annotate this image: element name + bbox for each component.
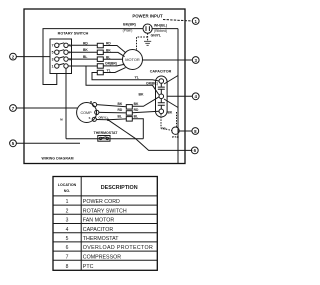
svg-text:WH(BL): WH(BL) bbox=[154, 24, 168, 28]
svg-text:3: 3 bbox=[194, 58, 197, 63]
svg-text:RD.: RD. bbox=[162, 127, 167, 131]
svg-text:RD: RD bbox=[106, 42, 111, 46]
svg-text:1: 1 bbox=[66, 199, 69, 205]
svg-text:6: 6 bbox=[66, 245, 69, 251]
wire RD switch L to motor bbox=[68, 45, 126, 53]
thermostat TH1 bbox=[98, 136, 110, 142]
svg-text:OR(BR): OR(BR) bbox=[105, 61, 117, 65]
svg-text:COMP: COMP bbox=[80, 111, 92, 115]
rotary switch position labels L H M bbox=[69, 44, 72, 62]
svg-text:5: 5 bbox=[66, 236, 69, 242]
fan motor M1 bbox=[123, 50, 143, 70]
svg-text:BK: BK bbox=[106, 48, 111, 52]
svg-text:BK: BK bbox=[118, 102, 123, 106]
svg-text:7: 7 bbox=[12, 106, 15, 111]
parts list table bbox=[53, 177, 157, 271]
connector CN2 bbox=[126, 105, 132, 122]
callout 1 power cord bbox=[192, 18, 199, 25]
svg-text:RD: RD bbox=[134, 108, 139, 112]
rotary switch contact levers bbox=[59, 43, 65, 65]
svg-text:BK: BK bbox=[83, 48, 88, 52]
svg-text:BK(BR): BK(BR) bbox=[123, 23, 137, 27]
svg-text:6: 6 bbox=[194, 148, 197, 153]
wire from junction to thermostat line bbox=[108, 120, 136, 139]
callout 7 compressor bbox=[10, 105, 78, 112]
svg-text:2: 2 bbox=[66, 208, 69, 214]
rotary switch box bbox=[50, 39, 72, 74]
svg-text:YL: YL bbox=[107, 68, 111, 72]
svg-text:4: 4 bbox=[194, 94, 197, 99]
wire BL compressor to connector bbox=[96, 118, 126, 121]
capacitor right wires to bus bbox=[164, 76, 178, 108]
power wire V2 from switch to thermostat bbox=[65, 68, 67, 139]
svg-text:POWER CORD: POWER CORD bbox=[83, 199, 120, 205]
svg-text:1: 1 bbox=[194, 19, 197, 24]
svg-text:OR(BK): OR(BK) bbox=[146, 81, 158, 85]
wire to callout 6 bbox=[136, 139, 193, 151]
rotary switch terminals bbox=[55, 43, 69, 68]
svg-text:4: 4 bbox=[66, 227, 69, 233]
wire BL switch M to motor bbox=[68, 58, 123, 60]
callout 2 rotary switch bbox=[10, 53, 50, 60]
svg-text:COMPRESSOR: COMPRESSOR bbox=[83, 254, 121, 260]
wire YL motor lead bbox=[103, 68, 125, 73]
thermostat line bbox=[66, 138, 143, 140]
callout 6 overload protector bbox=[191, 147, 198, 154]
svg-text:BL: BL bbox=[134, 114, 138, 118]
callout 5 thermostat bbox=[10, 140, 80, 147]
compressor M2 bbox=[77, 103, 99, 123]
svg-text:P.T.C: P.T.C bbox=[172, 135, 180, 139]
dashed wire RD to PTC bbox=[161, 114, 172, 130]
svg-text:5: 5 bbox=[12, 141, 15, 146]
svg-text:M: M bbox=[90, 100, 92, 104]
svg-text:8: 8 bbox=[66, 264, 69, 270]
svg-text:ROTARY SWITCH: ROTARY SWITCH bbox=[58, 32, 89, 36]
svg-text:3: 3 bbox=[66, 218, 69, 224]
wire BK compressor to connector bbox=[97, 105, 127, 107]
svg-text:LOCATION: LOCATION bbox=[58, 183, 77, 187]
svg-text:2: 2 bbox=[12, 54, 15, 59]
svg-text:(Plain): (Plain) bbox=[123, 29, 133, 33]
dashed wire BK to PTC bbox=[176, 112, 178, 127]
svg-text:POWER INPUT: POWER INPUT bbox=[132, 14, 163, 19]
svg-text:3: 3 bbox=[52, 57, 54, 61]
svg-text:CAPACITOR: CAPACITOR bbox=[150, 69, 172, 73]
wire YL loop to capacitor bbox=[92, 73, 159, 82]
svg-text:M: M bbox=[60, 118, 63, 122]
ground wire GN/YL dashed bbox=[137, 33, 148, 49]
wire BK to capacitor herm bbox=[132, 97, 159, 106]
wire RD to capacitor bottom bbox=[132, 111, 159, 112]
diagram border bbox=[24, 9, 185, 164]
svg-text:S: S bbox=[89, 116, 91, 120]
svg-text:THERMOSTAT: THERMOSTAT bbox=[94, 131, 119, 135]
svg-text:CAPACITOR: CAPACITOR bbox=[83, 227, 114, 233]
PTC starter bbox=[172, 127, 180, 139]
svg-text:7: 7 bbox=[66, 254, 69, 260]
callout 4 capacitor bbox=[167, 93, 199, 100]
svg-text:GN/YL: GN/YL bbox=[151, 34, 161, 38]
svg-text:BK: BK bbox=[168, 111, 173, 115]
svg-text:RD: RD bbox=[83, 41, 88, 45]
wire BK(BR) plug to rotary switch bbox=[43, 29, 143, 85]
svg-text:5: 5 bbox=[52, 51, 54, 55]
ground symbol bbox=[144, 41, 151, 45]
wire OR(BR) switch to motor bbox=[68, 64, 124, 66]
svg-text:(Ribbed): (Ribbed) bbox=[154, 29, 167, 33]
power input plug P1 bbox=[143, 24, 152, 33]
svg-text:7: 7 bbox=[52, 44, 54, 48]
leader to callout 1 bbox=[163, 20, 193, 22]
svg-text:BL: BL bbox=[118, 114, 122, 118]
rotary switch pin numbers 7 5 3 1 bbox=[52, 44, 54, 69]
junction on BL wire bbox=[107, 119, 109, 121]
svg-text:ROTARY SWITCH: ROTARY SWITCH bbox=[83, 208, 127, 214]
svg-text:OR(YL): OR(YL) bbox=[99, 115, 108, 119]
svg-text:BK: BK bbox=[139, 93, 145, 97]
svg-text:THERMOSTAT: THERMOSTAT bbox=[83, 236, 119, 242]
svg-text:PTC: PTC bbox=[83, 264, 94, 270]
callout 3 fan motor bbox=[143, 57, 200, 64]
svg-text:OVERLOAD PROTECTOR: OVERLOAD PROTECTOR bbox=[83, 245, 153, 251]
svg-text:BL: BL bbox=[83, 55, 87, 59]
wire WH(BL) plug to right bus bbox=[152, 28, 178, 30]
svg-text:MOTOR: MOTOR bbox=[125, 57, 140, 62]
capacitor C1 bbox=[156, 76, 168, 117]
svg-text:BL: BL bbox=[106, 55, 110, 59]
wire RD compressor to connector bbox=[99, 111, 126, 114]
svg-text:FAN MOTOR: FAN MOTOR bbox=[83, 218, 115, 224]
wire OR(BK) loop to capacitor bbox=[86, 66, 159, 95]
svg-text:RD: RD bbox=[118, 108, 123, 112]
wire BK switch H to motor bbox=[68, 52, 124, 56]
callout 8 PTC bbox=[179, 128, 199, 135]
svg-text:NO.: NO. bbox=[64, 189, 70, 193]
svg-text:WIRING DIAGRAM: WIRING DIAGRAM bbox=[42, 157, 74, 161]
svg-text:8: 8 bbox=[194, 129, 197, 134]
connector CN1 bbox=[97, 43, 103, 75]
svg-text:BK: BK bbox=[134, 102, 139, 106]
svg-text:DESCRIPTION: DESCRIPTION bbox=[101, 185, 138, 191]
svg-text:1: 1 bbox=[52, 64, 54, 68]
svg-text:YL: YL bbox=[135, 76, 139, 80]
right bus wire WH(BL) bbox=[177, 29, 179, 163]
wire BL down to thermostat line bbox=[132, 119, 143, 139]
